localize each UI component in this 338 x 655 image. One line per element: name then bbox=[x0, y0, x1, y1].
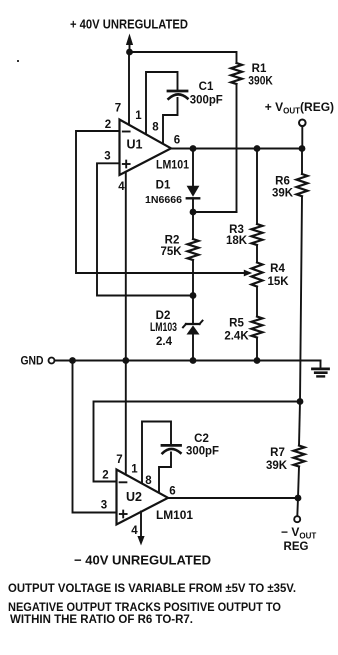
svg-text:R4: R4 bbox=[270, 263, 285, 275]
wire D1 anode lead bbox=[192, 149, 194, 187]
svg-text:1N6666: 1N6666 bbox=[145, 194, 182, 206]
svg-text:15K: 15K bbox=[267, 276, 289, 288]
svg-text:2.4K: 2.4K bbox=[224, 331, 249, 343]
resistor R1 label 390K bbox=[248, 63, 273, 88]
R4 wiper arrow bbox=[244, 270, 252, 277]
wire U1 pin 2 feedback to R4 wiper bbox=[76, 131, 244, 273]
wire R3 to R4 bbox=[256, 246, 258, 263]
wire R5 bottom to ground rail bbox=[256, 338, 258, 361]
wire D1 node to R1 bottom bbox=[193, 211, 237, 213]
U2 non-inverting input plus sign bbox=[120, 511, 127, 518]
resistor R5 bbox=[252, 317, 263, 338]
svg-text:7: 7 bbox=[115, 103, 121, 115]
wire U1 output to +Vout rail bbox=[171, 148, 302, 150]
wire R1 bottom to D1 node (crosses +V line, no dot) bbox=[236, 84, 238, 212]
wire +40V node to U1 pin 7 bbox=[128, 52, 130, 125]
svg-text:D1: D1 bbox=[156, 180, 171, 192]
junction R2 / U1 pin3 / D2 bbox=[190, 292, 197, 299]
svg-text:R1: R1 bbox=[252, 63, 267, 75]
junction +V line / R3 top bbox=[254, 145, 261, 152]
resistor R6 label 39K bbox=[272, 176, 294, 200]
svg-text:2: 2 bbox=[105, 119, 111, 131]
resistor R6 bbox=[297, 174, 308, 196]
op-amp U2 bbox=[117, 470, 169, 525]
resistor R1 bbox=[231, 63, 242, 84]
resistor R3 label 18K bbox=[226, 224, 248, 247]
zener diode D2 bbox=[183, 321, 203, 335]
potentiometer R4 label 15K bbox=[267, 263, 289, 288]
wire +Vout terminal to +V line bbox=[301, 126, 303, 148]
junction U2 output / R7 bottom / -Vout terminal bbox=[295, 495, 302, 502]
op-amp U1 bbox=[120, 120, 172, 176]
wire R2 bottom to D2 node bbox=[192, 261, 194, 296]
capacitor C2 bbox=[162, 445, 181, 453]
svg-text:REG: REG bbox=[284, 541, 309, 553]
svg-text:LM101: LM101 bbox=[156, 160, 190, 172]
wire ground to U2 pin 3 bbox=[73, 361, 117, 513]
wire U1 pin 4 to ground rail bbox=[125, 172, 127, 361]
capacitor C2 label 300pF bbox=[186, 433, 219, 458]
svg-text:18K: 18K bbox=[226, 235, 248, 247]
wire U1 pin 3 to R2/D2 node bbox=[97, 163, 193, 295]
svg-text:GND: GND bbox=[21, 356, 44, 368]
svg-text:7: 7 bbox=[116, 454, 122, 466]
junction U1 output / D1 anode bbox=[190, 145, 197, 152]
svg-text:4: 4 bbox=[118, 181, 125, 193]
svg-text:390K: 390K bbox=[248, 76, 273, 88]
junction ground / U1 pin4 / U2 pin7 bbox=[122, 357, 129, 364]
wire D2 anode to ground rail bbox=[192, 335, 194, 361]
svg-text:300pF: 300pF bbox=[186, 446, 219, 458]
-Vout terminal circle bbox=[294, 516, 300, 522]
wire -Vout terminal stub bbox=[296, 498, 299, 516]
resistor R7 bbox=[294, 446, 305, 467]
wire C2 to U2 pin 8 bbox=[159, 453, 171, 494]
resistor R5 label 2.4K bbox=[224, 318, 249, 343]
ground rail wire bbox=[55, 360, 321, 362]
svg-text:1: 1 bbox=[131, 464, 138, 476]
svg-text:1: 1 bbox=[135, 110, 142, 122]
svg-text:C2: C2 bbox=[194, 433, 209, 445]
svg-text:3: 3 bbox=[104, 151, 110, 163]
ground symbol bbox=[313, 361, 329, 377]
junction D1 cathode / R1 / R2 bbox=[190, 209, 197, 216]
junction ground / U2 pin3 branch bbox=[69, 357, 76, 364]
resistor R2 bbox=[188, 239, 199, 260]
wire ground to U2 pin 7 bbox=[125, 361, 127, 475]
zener D2 label LM103 2.4 bbox=[150, 310, 177, 348]
svg-text:75K: 75K bbox=[160, 246, 182, 258]
wire node to R2 top bbox=[192, 212, 194, 239]
svg-text:U1: U1 bbox=[127, 138, 143, 152]
svg-text:R7: R7 bbox=[270, 447, 285, 459]
capacitor C2 compensation loop pin1 side bbox=[142, 422, 171, 485]
wire R3 top lead bbox=[256, 149, 258, 225]
svg-text:U2: U2 bbox=[126, 490, 142, 504]
potentiometer R4 bbox=[252, 263, 263, 287]
svg-text:− VOUT: − VOUT bbox=[281, 525, 316, 541]
svg-text:R2: R2 bbox=[165, 235, 180, 247]
svg-text:39K: 39K bbox=[272, 188, 294, 200]
resistor R3 bbox=[252, 224, 263, 245]
diode D1 bbox=[187, 186, 200, 199]
wire +40V node to R1 top bbox=[130, 52, 237, 63]
svg-text:4: 4 bbox=[131, 525, 138, 537]
svg-text:2: 2 bbox=[102, 470, 108, 482]
resistor R7 label 39K bbox=[266, 447, 288, 472]
junction R6/R7 feedback node bbox=[297, 398, 304, 405]
svg-text:6: 6 bbox=[169, 486, 175, 498]
svg-text:+ VOUT(REG): + VOUT(REG) bbox=[265, 100, 334, 116]
+Vout terminal circle bbox=[299, 120, 306, 127]
svg-text:OUTPUT VOLTAGE IS VARIABLE FRO: OUTPUT VOLTAGE IS VARIABLE FROM ±5V TO ±… bbox=[8, 581, 296, 595]
wire U2 feedback loop to pin 2 bbox=[94, 402, 301, 482]
svg-text:D2: D2 bbox=[156, 310, 171, 322]
junction +40V node bbox=[126, 49, 133, 56]
junction ground / D2 bbox=[190, 357, 197, 364]
wire C1 to U1 pin 8 bbox=[163, 98, 178, 144]
capacitor C1 bbox=[168, 91, 188, 99]
U1 inverting input minus sign bbox=[123, 131, 130, 133]
wire R4 to R5 bbox=[256, 287, 258, 317]
resistor R2 label 75K bbox=[160, 235, 182, 259]
diode D1 label 1N6666 bbox=[145, 180, 182, 207]
svg-text:LM101: LM101 bbox=[156, 510, 194, 522]
junction +V line / R6 top / +Vout terminal bbox=[299, 145, 306, 152]
svg-text:LM103: LM103 bbox=[150, 322, 177, 334]
capacitor C1 compensation loop pin1 side bbox=[146, 72, 178, 135]
svg-text:− 40V UNREGULATED: − 40V UNREGULATED bbox=[74, 553, 211, 568]
svg-text:2.4: 2.4 bbox=[156, 336, 173, 348]
svg-text:+ 40V UNREGULATED: + 40V UNREGULATED bbox=[70, 17, 188, 32]
svg-text:39K: 39K bbox=[266, 460, 288, 472]
svg-text:WITHIN THE RATIO OF R6 TO-R7.: WITHIN THE RATIO OF R6 TO-R7. bbox=[10, 612, 193, 626]
wire U2 pin 4 to -40V arrow bbox=[137, 512, 144, 546]
svg-text:C1: C1 bbox=[199, 81, 214, 93]
wire U2 output to -Vout rail bbox=[168, 497, 298, 499]
junction ground / R5 bbox=[254, 357, 261, 364]
svg-text:8: 8 bbox=[152, 122, 159, 134]
svg-text:R5: R5 bbox=[229, 318, 244, 330]
svg-text:R6: R6 bbox=[275, 176, 290, 188]
svg-text:6: 6 bbox=[174, 135, 180, 147]
svg-text:3: 3 bbox=[101, 500, 107, 512]
U2 inverting input minus sign bbox=[120, 481, 127, 483]
U1 non-inverting input plus sign bbox=[123, 161, 130, 168]
+Vout terminal label bbox=[265, 100, 334, 116]
wire +V line to R6 top bbox=[301, 149, 303, 175]
scan speck artifact bbox=[17, 60, 19, 62]
-Vout terminal label bbox=[281, 525, 316, 553]
capacitor C1 label 300pF bbox=[190, 81, 223, 107]
wire R6/R7 node to R7 top bbox=[299, 402, 300, 446]
svg-text:300pF: 300pF bbox=[190, 95, 223, 107]
wire D1 cathode to node bbox=[192, 198, 194, 212]
wire R6 bottom to R6/R7 node (crosses ground rail, no dot) bbox=[300, 197, 302, 402]
wire D2 cathode lead bbox=[192, 296, 194, 325]
GND terminal circle bbox=[49, 358, 55, 364]
+40V supply arrow bbox=[126, 34, 133, 53]
wire R7 bottom to U2 output bbox=[298, 467, 299, 499]
